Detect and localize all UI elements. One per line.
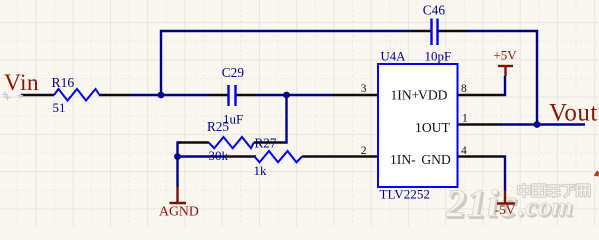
svg-text:U4A: U4A: [381, 49, 407, 63]
resistor R16: [54, 89, 100, 101]
wire node B down to R25: [280, 95, 287, 143]
svg-text:3: 3: [361, 83, 367, 95]
svg-text:-5V: -5V: [495, 202, 516, 217]
pin 4 stub: [458, 155, 502, 157]
faint grid cross marks near Vin: [2, 92, 23, 101]
ground node junction: [174, 153, 181, 160]
pin 1 stub: [458, 123, 502, 125]
pin 2 stub: [302, 155, 378, 157]
pin 8 stub: [458, 94, 502, 96]
svg-text:.com: .com: [518, 192, 573, 222]
resistor R25: [209, 137, 254, 148]
svg-text:+5V: +5V: [493, 48, 517, 63]
wire R16 to C29 through node A: [131, 94, 209, 96]
wire R16 right lead: [99, 94, 131, 96]
wire C46 right lead: [439, 30, 468, 32]
op-amp U4A TLV2252 body: [378, 64, 458, 187]
svg-text:1IN-: 1IN-: [390, 152, 416, 167]
wire C29 right lead: [236, 94, 256, 96]
svg-text:AGND: AGND: [159, 204, 199, 219]
ground AGND symbol: [170, 187, 187, 203]
svg-text:1IN+: 1IN+: [391, 87, 420, 102]
svg-text:TLV2252: TLV2252: [380, 187, 430, 202]
svg-text:51: 51: [53, 100, 66, 115]
svg-text:1OUT: 1OUT: [415, 120, 450, 135]
pin 3 stub: [333, 94, 378, 96]
wire C46 left lead: [410, 30, 431, 32]
svg-text:4: 4: [461, 145, 467, 157]
svg-text:R25: R25: [207, 119, 229, 134]
svg-text:Vin: Vin: [4, 70, 39, 96]
capacitor C29: [229, 85, 236, 106]
wire node A to top feedback rail: [161, 31, 410, 95]
svg-text:R16: R16: [52, 75, 75, 90]
wire R25 right lead: [254, 141, 281, 143]
svg-text:2: 2: [361, 145, 367, 157]
svg-text:Vout: Vout: [549, 100, 598, 127]
power -5V symbol: [497, 191, 515, 204]
svg-text:1k: 1k: [254, 163, 268, 178]
svg-text:C29: C29: [222, 65, 245, 80]
wire pin 8 up to +5V: [502, 76, 505, 95]
svg-text:R27: R27: [255, 135, 277, 150]
wire C46 right to output node: [467, 31, 537, 125]
svg-text:8: 8: [461, 83, 467, 95]
svg-text:VDD: VDD: [418, 87, 448, 102]
wire R25 left end down to AGND: [178, 143, 182, 188]
svg-text:30k: 30k: [209, 148, 229, 163]
wire C29 left lead: [209, 94, 228, 96]
watermark 21ic.com logo: [445, 171, 599, 227]
svg-text:10pF: 10pF: [425, 49, 452, 64]
wire Vin port lead: [21, 94, 54, 96]
capacitor C46: [432, 19, 438, 46]
output node junction: [534, 121, 541, 128]
wire C29 to pin 3 through node B: [256, 94, 333, 96]
node A junction: [158, 92, 165, 99]
svg-text:1: 1: [462, 113, 468, 125]
svg-text:C46: C46: [423, 2, 446, 17]
resistor R27: [255, 151, 303, 162]
power +5V symbol: [498, 66, 513, 76]
node B junction: [283, 92, 290, 99]
wire R27 left lead: [226, 155, 256, 157]
wire pin 4 down to -5V: [502, 157, 505, 191]
wire output node to Vout: [502, 123, 585, 125]
wire ground node to R27: [178, 155, 227, 157]
wire R25 left lead: [179, 141, 209, 143]
svg-text:GND: GND: [421, 152, 451, 167]
